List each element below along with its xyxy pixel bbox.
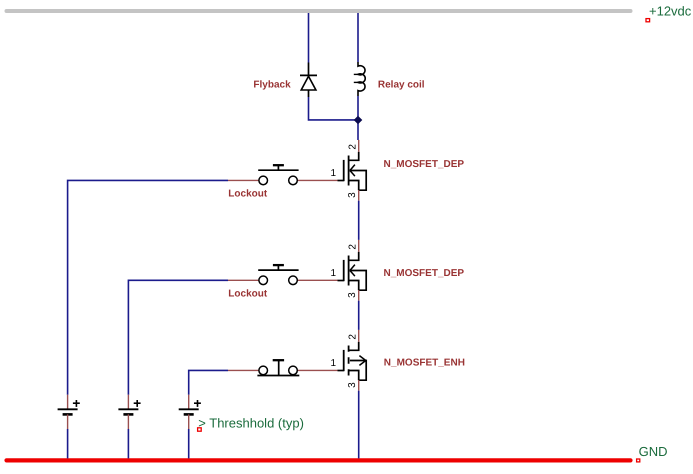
svg-text:> Threshhold (typ): > Threshhold (typ) — [198, 415, 304, 430]
svg-text:2: 2 — [348, 144, 359, 150]
svg-text:Relay coil: Relay coil — [378, 80, 425, 91]
pin 3 lead — [358, 190, 360, 201]
svg-text:3: 3 — [347, 192, 358, 198]
pin 3 lead — [358, 380, 360, 391]
pin 2 lead — [358, 140, 360, 152]
svg-text:Lockout: Lockout — [228, 288, 268, 299]
svg-text:+12vdc: +12vdc — [649, 4, 692, 19]
pin 3 lead — [358, 290, 360, 301]
wire — [358, 201, 360, 240]
wire — [67, 429, 69, 458]
terminal square +12vdc — [646, 19, 650, 22]
wire — [128, 280, 228, 394]
wire — [358, 391, 360, 459]
wire — [188, 429, 190, 458]
svg-text:3: 3 — [347, 382, 358, 388]
inductor L1 Relay coil — [354, 62, 365, 96]
junction — [354, 117, 361, 124]
power rail +12vdc — [7, 9, 631, 13]
wire — [357, 13, 359, 62]
svg-text:N_MOSFET_DEP: N_MOSFET_DEP — [384, 268, 465, 279]
pushbutton switch S2 Lockout — [228, 265, 338, 285]
terminal square GND — [637, 459, 640, 462]
pin 2 lead — [358, 240, 360, 252]
svg-text:2: 2 — [348, 244, 359, 250]
wire — [308, 13, 310, 63]
svg-text:3: 3 — [347, 292, 358, 298]
pushbutton switch S1 Lockout — [228, 165, 338, 185]
battery B3 — [179, 395, 201, 429]
battery B1 — [58, 395, 80, 429]
n-mosfet Q1 N_MOSFET_DEP — [338, 152, 367, 190]
svg-text:1: 1 — [330, 168, 336, 179]
diode D1 Flyback — [300, 63, 317, 98]
svg-text:N_MOSFET_DEP: N_MOSFET_DEP — [384, 159, 465, 170]
svg-text:2: 2 — [348, 334, 359, 340]
battery B2 — [118, 395, 140, 429]
terminal square Threshhold — [198, 428, 202, 431]
svg-text:1: 1 — [330, 268, 336, 279]
wire — [68, 180, 228, 394]
wire — [358, 301, 360, 330]
wire — [357, 96, 359, 140]
wire — [309, 97, 359, 120]
n-mosfet Q3 N_MOSFET_ENH — [338, 342, 367, 380]
svg-text:GND: GND — [639, 444, 668, 459]
n-mosfet Q2 N_MOSFET_DEP — [338, 252, 367, 290]
svg-text:Flyback: Flyback — [253, 80, 291, 91]
svg-text:Lockout: Lockout — [228, 189, 268, 200]
svg-text:1: 1 — [330, 358, 336, 369]
wire — [189, 370, 228, 394]
pin 2 lead — [358, 330, 360, 342]
svg-text:N_MOSFET_ENH: N_MOSFET_ENH — [384, 358, 465, 369]
pushbutton switch S3 — [228, 360, 338, 375]
wire — [127, 429, 129, 458]
ground rail GND — [7, 458, 631, 462]
